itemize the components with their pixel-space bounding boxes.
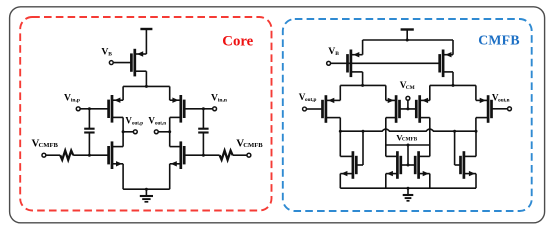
wire top supply rail (CMFB) (363, 39, 453, 41)
label V_CMFB right (236, 138, 263, 150)
wire V_CM gate tie (400, 108, 417, 110)
wire to V_out,p terminal (123, 131, 133, 133)
wire M2 drain to M4 drain (right output branch) (169, 117, 171, 146)
CMFB block dashed border (283, 19, 532, 211)
wire M1 drain to M3 drain (left output branch) (122, 117, 124, 146)
CMFB title (478, 33, 520, 48)
wire M6 drain down (452, 72, 454, 86)
PMOS M10 (CMFB outer-right, V_out,n) (476, 95, 492, 123)
wire right split rail (CMFB) (430, 84, 476, 86)
svg-text:in,p: in,p (71, 97, 80, 103)
wire source-split rail (Core) (123, 85, 170, 87)
wire left split branch (Core) (122, 86, 124, 100)
node right split junction (CMFB) (452, 84, 455, 87)
NMOS M13 (CMFB mid-right) (415, 151, 430, 179)
label V_out,n (Core) (148, 116, 166, 127)
svg-text:out,p: out,p (305, 97, 317, 103)
terminal V_out,n (Core) (154, 130, 158, 134)
label V_B (CMFB) (328, 46, 339, 57)
VDD supply symbol (CMFB) (401, 30, 414, 41)
node V_in,p/cap junction (88, 107, 91, 110)
svg-text:out,p: out,p (132, 122, 143, 127)
node left split junction (CMFB) (361, 84, 364, 87)
svg-text:B: B (335, 51, 339, 57)
terminal V_out,p (CMFB) (303, 107, 307, 111)
svg-text:out,n: out,n (498, 98, 510, 104)
terminal V_B (Core) (109, 61, 113, 65)
terminal V_in,n (213, 107, 217, 111)
wire M9 source up (429, 85, 431, 100)
terminal V_CM (406, 96, 410, 100)
node VDD/top rail junction (406, 39, 409, 42)
terminal V_in,p (76, 107, 80, 111)
wire M7 drain down (339, 118, 341, 132)
wire R2 to gate (184, 154, 219, 156)
wire M10 source up (475, 85, 477, 100)
label V_out,p (Core) (125, 116, 143, 127)
label V_out,n (CMFB) (492, 93, 510, 104)
wire M11 gate tap across (356, 164, 363, 166)
wire V_in,n gate (184, 108, 212, 110)
tail PMOS M5 (CMFB left) (348, 50, 363, 78)
Core title (222, 33, 253, 49)
wire R1 to gate (73, 154, 108, 156)
node right NMOS gate tap (453, 130, 456, 133)
wire V_out,p gate (CMFB) (307, 108, 323, 110)
node R1/cap junction (88, 154, 91, 157)
node rail right end (475, 130, 478, 133)
node V_CMFB rail/gate junction (407, 144, 410, 147)
wire M14 drain up (475, 131, 477, 156)
label V_in,n (211, 92, 227, 103)
wire V_in,p gate (81, 108, 109, 110)
resistor R2 (Core right) (220, 151, 233, 160)
node ground junction (CMFB) (407, 187, 410, 190)
wire V_CMFB lead left (46, 154, 60, 156)
terminal V_out,p (Core) (133, 130, 137, 134)
svg-text:CMFB: CMFB (402, 137, 418, 143)
label V_CMFB left (32, 138, 59, 150)
tail PMOS M6 (CMFB right) (440, 50, 453, 78)
wire V_CMFB lead right (233, 154, 247, 156)
node ground junction (Core) (145, 188, 148, 191)
PMOS M9 (CMFB mid-right, V_CM) (416, 95, 430, 123)
NMOS M11 (CMFB left, diode) (340, 151, 356, 179)
node V_out,n junction (168, 130, 171, 133)
NMOS M12 (CMFB mid-left) (386, 151, 401, 179)
wire V_CMFB rail (386, 144, 430, 146)
svg-text:out,n: out,n (155, 122, 166, 127)
node left NMOS gate tap (362, 130, 365, 133)
wire M11 drain up (339, 131, 341, 156)
wire to V_out,n terminal (159, 131, 170, 133)
svg-text:CMFB: CMFB (243, 142, 263, 149)
wire M4 source down (right) (169, 164, 171, 189)
tail PMOS M0 (Core) (131, 49, 146, 77)
wire bottom source rail (Core) (123, 188, 170, 190)
wire left split rail (CMFB) (340, 84, 386, 86)
node V_CM junction (406, 107, 409, 110)
svg-text:CM: CM (406, 85, 415, 91)
PMOS M8 (CMFB mid-left, V_CM) (386, 95, 400, 123)
wire M8 source up (385, 85, 387, 100)
VDD supply symbol (Core) (140, 29, 152, 54)
wire M11 source down (339, 174, 341, 189)
NMOS M3 (Core left) (109, 141, 124, 169)
wire outer drain rail with wire hops (CMFB) (340, 129, 476, 131)
terminal V_CMFB right (247, 153, 251, 157)
wire V_B bus (CMFB) (331, 62, 440, 64)
label V_B (Core) (101, 46, 112, 57)
NMOS M4 (Core right) (170, 141, 185, 169)
node rail left end (339, 130, 342, 133)
wire M6 source up (452, 40, 454, 55)
label V_in,p (64, 92, 80, 103)
wire right split branch (Core) (169, 86, 171, 100)
ground (CMFB) (403, 188, 414, 201)
svg-text:B: B (108, 51, 112, 57)
svg-text:Core: Core (222, 33, 253, 49)
PMOS M7 (CMFB outer-left, V_out,p) (323, 95, 341, 123)
label V_CM (400, 81, 415, 91)
Core block dashed border (20, 17, 271, 211)
label V_CMFB (CMFB) (396, 132, 417, 142)
node tail/split junction (Core) (145, 85, 148, 88)
wire M5 drain down (362, 72, 364, 86)
wire V_out,n gate (CMFB) (492, 108, 508, 110)
wire mid gate to V_CMFB rail (407, 145, 409, 165)
wire M14 gate tap down (454, 131, 456, 165)
terminal V_B (CMFB) (327, 61, 331, 65)
node V_out,p junction (122, 130, 125, 133)
wire M13 source down (429, 174, 431, 189)
wire M7 source up (339, 85, 341, 100)
svg-text:CMFB: CMFB (478, 33, 520, 48)
wire tail drain (Core) (145, 71, 147, 86)
wire M12 source down (385, 174, 387, 189)
wire mid NMOS gate tie (401, 164, 415, 166)
label V_out,p (CMFB) (299, 92, 317, 103)
wire V_CM stem (407, 101, 409, 109)
wire M9 drain down to V_CMFB rail and M13 (429, 118, 431, 157)
resistor R1 (Core left) (60, 151, 73, 160)
terminal V_CMFB left (42, 153, 46, 157)
ground (Core) (140, 189, 153, 202)
capacitor C1 (Core left) (84, 109, 94, 155)
svg-text:in,n: in,n (218, 97, 227, 103)
wire V_B gate (Core) (114, 62, 132, 64)
node V_in,n/cap junction (202, 107, 205, 110)
wire M5 source up (362, 40, 364, 55)
wire M11 gate tap down (362, 131, 364, 165)
wire M14 gate tap across (455, 164, 461, 166)
terminal V_out,n (CMFB) (508, 107, 512, 111)
wire M14 source down (475, 174, 477, 189)
input PMOS M2 (Core right) (170, 95, 185, 123)
wire bottom source rail (CMFB) (340, 187, 476, 189)
wire M8 drain down to V_CMFB rail and M12 (385, 118, 387, 157)
node R2/cap junction (202, 154, 205, 157)
capacitor C2 (Core right) (198, 109, 208, 155)
input PMOS M1 (Core left) (109, 95, 124, 123)
NMOS M14 (CMFB right, diode) (461, 151, 477, 179)
svg-text:CMFB: CMFB (39, 142, 59, 149)
wire M10 drain down (475, 118, 477, 132)
node mid gate junction (407, 164, 410, 167)
wire M3 source down (left) (122, 164, 124, 189)
